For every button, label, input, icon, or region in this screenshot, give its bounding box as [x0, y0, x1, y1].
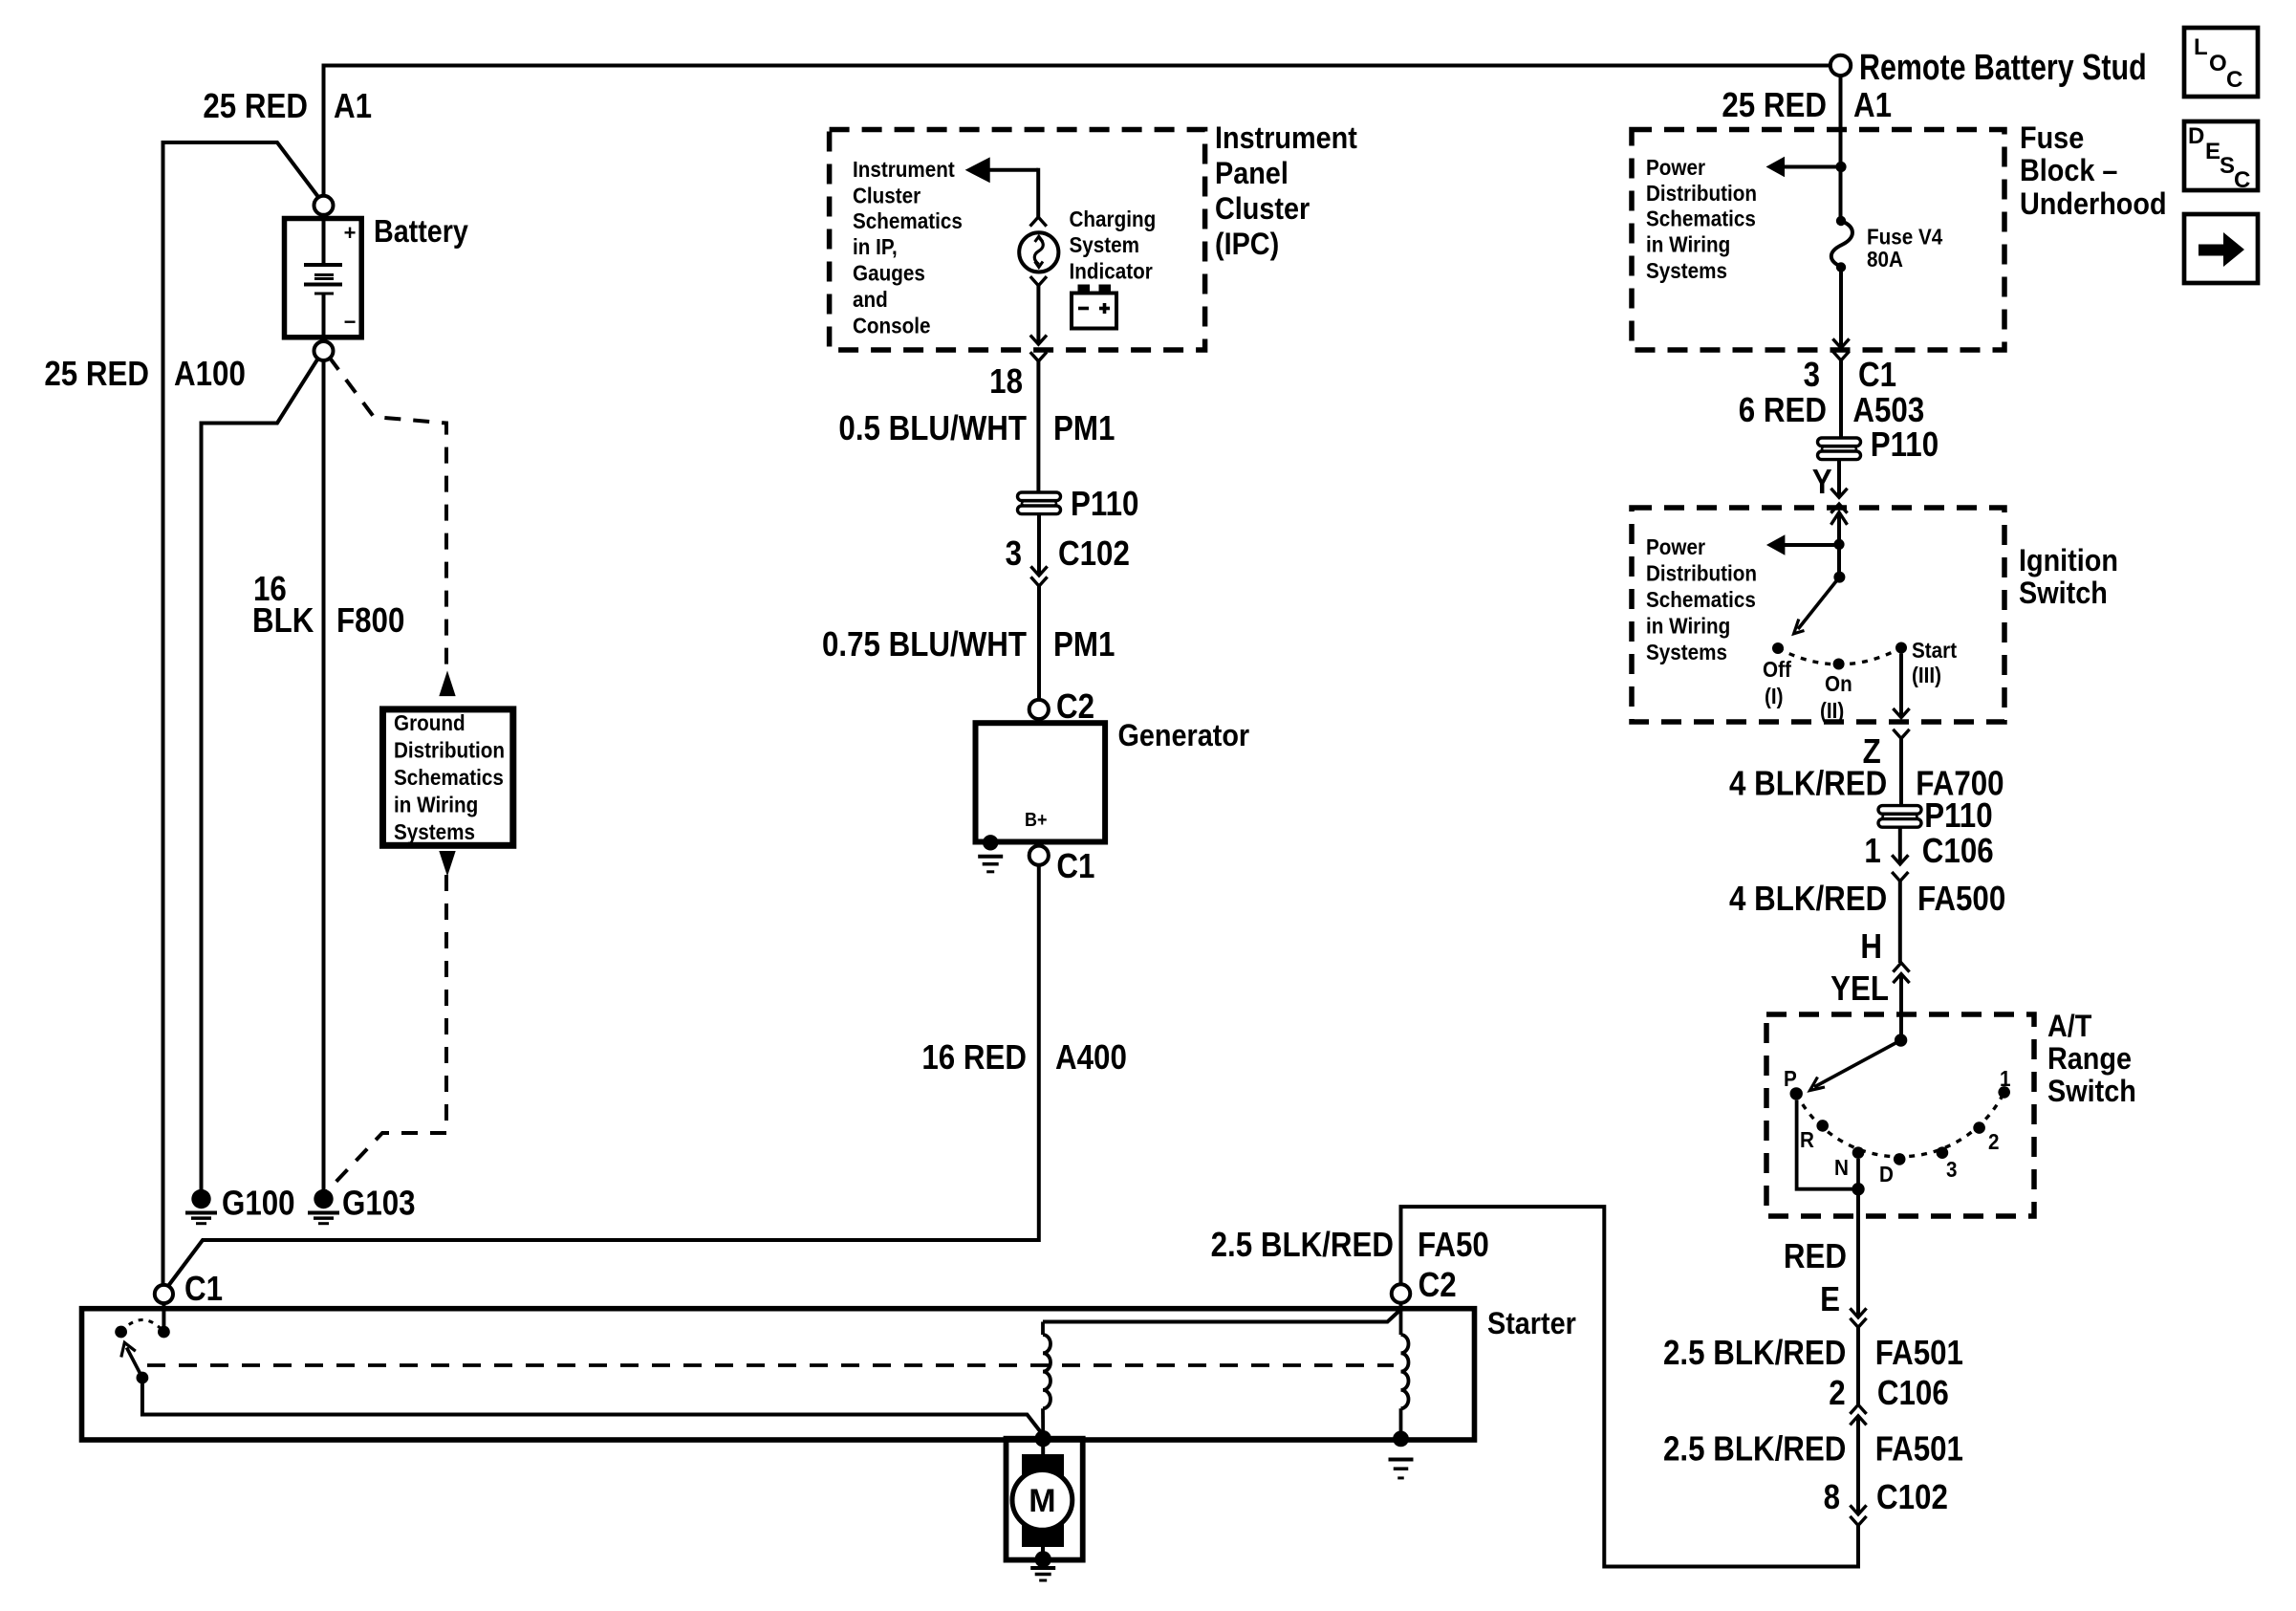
- starter switch arm: [127, 1348, 142, 1379]
- svg-text:R: R: [1800, 1127, 1814, 1153]
- wire battery negative to G100: [202, 359, 319, 1190]
- svg-text:A100: A100: [174, 355, 246, 394]
- svg-text:A400: A400: [1055, 1038, 1127, 1078]
- svg-text:Instrument: Instrument: [1215, 121, 1357, 156]
- chevron below ignition box: [1893, 729, 1909, 739]
- wire 4 BLK/RED FA500: [1898, 882, 1902, 963]
- svg-text:(I): (I): [1765, 684, 1784, 709]
- svg-text:Systems: Systems: [394, 819, 475, 845]
- starter hold-in coil L2: [1401, 1335, 1409, 1408]
- chevron below C102: [1030, 577, 1047, 586]
- svg-text:Block –: Block –: [2020, 154, 2117, 188]
- chevron below C102 pin8: [1850, 1516, 1866, 1526]
- DESC reference box: [2184, 121, 2258, 190]
- svg-text:2.5 BLK/RED: 2.5 BLK/RED: [1211, 1226, 1394, 1265]
- svg-text:A/T: A/T: [2047, 1010, 2092, 1044]
- connector P110 pass-through (IPC): [1018, 492, 1061, 514]
- svg-text:C1: C1: [1056, 847, 1094, 886]
- generator terminal C2 circle: [1029, 700, 1049, 719]
- chevron below C106 pin1: [1892, 872, 1908, 882]
- svg-text:4 BLK/RED: 4 BLK/RED: [1729, 764, 1887, 803]
- svg-text:in IP,: in IP,: [853, 234, 898, 260]
- svg-text:Switch: Switch: [2019, 577, 2108, 611]
- wire motor brush to ground: [1041, 1546, 1045, 1557]
- starter switch contact right: [158, 1326, 170, 1339]
- wire 2.5 BLK/RED FA501 upper: [1856, 1327, 1860, 1404]
- svg-text:25 RED: 25 RED: [1722, 86, 1827, 125]
- svg-text:in Wiring: in Wiring: [1646, 613, 1730, 639]
- AT contact R: [1816, 1120, 1829, 1132]
- wire 25 RED A100 left branch: [163, 142, 319, 1285]
- wire switch arm to motor junction: [142, 1378, 1043, 1435]
- svg-text:2.5 BLK/RED: 2.5 BLK/RED: [1663, 1334, 1846, 1373]
- svg-text:(IPC): (IPC): [1215, 228, 1279, 262]
- ground G100: [191, 1189, 210, 1208]
- AT contact 2: [1973, 1121, 1985, 1134]
- ignition contact Start: [1895, 642, 1907, 654]
- svg-text:A1: A1: [334, 87, 372, 126]
- svg-text:Battery: Battery: [374, 213, 469, 249]
- svg-text:16 RED: 16 RED: [921, 1038, 1027, 1078]
- svg-text:Schematics: Schematics: [1646, 206, 1756, 231]
- wire junction to motor brush: [1041, 1440, 1045, 1456]
- battery positive terminal circle: [314, 196, 334, 215]
- arrowhead at C102: [1030, 566, 1047, 576]
- ground G103: [314, 1189, 333, 1208]
- starter switch contact left: [115, 1326, 127, 1339]
- ground distribution schematics box: [383, 709, 513, 845]
- svg-text:Schematics: Schematics: [1646, 587, 1756, 613]
- svg-text:FA500: FA500: [1917, 880, 2005, 919]
- battery cell symbol: [322, 219, 326, 265]
- svg-text:Fuse: Fuse: [2020, 121, 2084, 156]
- AT output junction dot: [1852, 1183, 1864, 1195]
- svg-text:F800: F800: [336, 601, 404, 641]
- dashed detent arc ignition: [1778, 648, 1901, 664]
- svg-text:Range: Range: [2047, 1042, 2132, 1077]
- svg-text:Gauges: Gauges: [853, 260, 925, 286]
- arrowhead at C106 pin1: [1892, 855, 1908, 864]
- arrowhead down out of ground distribution box: [440, 852, 455, 876]
- AT switch pivot dot: [1895, 1034, 1907, 1046]
- motor case ground: [1030, 1566, 1055, 1570]
- svg-text:Systems: Systems: [1646, 640, 1727, 665]
- wire stud to fuse: [1839, 76, 1843, 221]
- arrow to instrument cluster schematics: [987, 168, 1038, 172]
- arrowhead up into ground distribution box: [440, 672, 455, 696]
- arrowhead at splice E: [1850, 1308, 1866, 1317]
- motor top brush: [1022, 1454, 1064, 1478]
- svg-text:2: 2: [1988, 1129, 2000, 1155]
- remote battery stud circle: [1830, 55, 1851, 76]
- generator terminal C1 circle: [1029, 846, 1049, 865]
- svg-text:PM1: PM1: [1053, 625, 1115, 664]
- svg-text:Remote Battery Stud: Remote Battery Stud: [1859, 48, 2147, 88]
- svg-text:Cluster: Cluster: [1215, 192, 1310, 227]
- svg-text:3: 3: [1006, 534, 1022, 574]
- svg-text:Instrument: Instrument: [853, 157, 955, 183]
- svg-text:P110: P110: [1071, 485, 1138, 524]
- AT contact N: [1852, 1146, 1865, 1159]
- svg-text:Schematics: Schematics: [394, 765, 504, 791]
- AT contact 1: [1998, 1086, 2010, 1099]
- wire starter C2 to hold-in coil: [1399, 1303, 1403, 1335]
- wire battery positive to top bus A1: [324, 66, 1831, 196]
- svg-text:Switch: Switch: [2047, 1075, 2136, 1109]
- svg-text:Schematics: Schematics: [853, 208, 963, 234]
- svg-text:C1: C1: [184, 1270, 223, 1309]
- svg-text:1: 1: [1864, 832, 1880, 871]
- svg-text:Y: Y: [1812, 463, 1832, 502]
- battery warning icon: [1072, 294, 1116, 329]
- AT contact D: [1894, 1153, 1906, 1165]
- svg-text:Console: Console: [853, 313, 931, 338]
- svg-text:Panel: Panel: [1215, 157, 1289, 191]
- svg-text:18: 18: [989, 362, 1023, 402]
- starter motor M1 circle: [1012, 1470, 1072, 1531]
- svg-text:P110: P110: [1871, 425, 1939, 465]
- connector P110 pass-through (A503): [1818, 438, 1861, 460]
- fuse block underhood dashed box: [1632, 130, 2004, 351]
- wire to C106: [1898, 827, 1902, 864]
- ignition switch arm: [1798, 577, 1839, 629]
- svg-text:6 RED: 6 RED: [1739, 391, 1827, 430]
- LOC reference box: [2184, 28, 2258, 97]
- charging system indicator lamp U1: [1019, 232, 1058, 272]
- battery negative terminal circle: [314, 341, 334, 360]
- wire IPC indicator feed: [1036, 168, 1040, 217]
- junction dot ignition feed: [1833, 539, 1844, 550]
- starter switch pivot dot: [137, 1372, 149, 1384]
- starter motor box: [1007, 1439, 1083, 1560]
- svg-text:PM1: PM1: [1053, 409, 1115, 448]
- wire to C102: [1037, 514, 1041, 576]
- starter terminal C1 circle: [155, 1285, 173, 1303]
- svg-text:C102: C102: [1058, 534, 1130, 574]
- svg-text:C: C: [2234, 167, 2250, 193]
- svg-text:8: 8: [1824, 1478, 1840, 1517]
- svg-text:25 RED: 25 RED: [44, 355, 149, 394]
- wire start contact to box exit: [1899, 654, 1903, 718]
- arrowhead entering ignition box: [1831, 512, 1848, 525]
- ignition contact On: [1833, 659, 1845, 670]
- svg-text:D: D: [2188, 123, 2204, 149]
- starter motor junction dot: [1035, 1430, 1051, 1447]
- svg-text:FA501: FA501: [1875, 1334, 1963, 1373]
- wire RED E out of AT switch: [1856, 1189, 1860, 1317]
- generator box: [976, 723, 1106, 841]
- dashed arc starter switch: [121, 1320, 164, 1333]
- wire YEL: [1899, 974, 1903, 1041]
- svg-text:Distribution: Distribution: [1646, 181, 1757, 207]
- dashed mechanical link starter: [147, 1363, 1394, 1367]
- motor ground dot: [1035, 1551, 1051, 1567]
- generator case ground: [983, 835, 998, 850]
- svg-text:E: E: [2205, 139, 2220, 164]
- svg-text:YEL: YEL: [1830, 969, 1889, 1009]
- svg-text:Cluster: Cluster: [853, 183, 921, 208]
- svg-text:Charging: Charging: [1070, 207, 1157, 232]
- chevron above indicator: [1030, 217, 1047, 227]
- motor bottom brush: [1022, 1523, 1064, 1548]
- chevron below IPC box: [1030, 352, 1047, 361]
- wire 0.75 BLU/WHT PM1: [1037, 586, 1041, 700]
- wire to C1 connector: [1839, 360, 1843, 438]
- wire 0.5 BLU/WHT PM1: [1036, 361, 1040, 492]
- svg-text:P110: P110: [1924, 796, 1992, 836]
- svg-text:(III): (III): [1912, 663, 1941, 688]
- svg-text:FA501: FA501: [1875, 1429, 1963, 1469]
- wire Z 4 BLK/RED FA700: [1899, 738, 1903, 807]
- splice H chevron pair: [1893, 963, 1909, 972]
- svg-text:Indicator: Indicator: [1070, 258, 1154, 284]
- arrowhead at C102 pin8: [1850, 1505, 1866, 1514]
- svg-text:A1: A1: [1853, 86, 1892, 125]
- svg-text:Distribution: Distribution: [394, 737, 505, 763]
- svg-text:25 RED: 25 RED: [203, 87, 308, 126]
- svg-text:Systems: Systems: [1646, 258, 1727, 284]
- arrow exiting fuse box: [1832, 338, 1849, 348]
- svg-text:Distribution: Distribution: [1646, 560, 1757, 586]
- svg-text:Power: Power: [1646, 155, 1705, 181]
- svg-text:C102: C102: [1876, 1478, 1948, 1517]
- instrument panel cluster dashed box: [830, 130, 1205, 351]
- svg-text:System: System: [1070, 232, 1140, 258]
- svg-text:3: 3: [1804, 356, 1820, 395]
- starter solenoid box: [82, 1309, 1475, 1440]
- starter ground junction dot: [1393, 1431, 1409, 1448]
- svg-text:G100: G100: [222, 1184, 295, 1223]
- svg-text:B+: B+: [1025, 810, 1048, 831]
- wire fuse to box exit: [1839, 268, 1843, 349]
- svg-text:N: N: [1834, 1155, 1849, 1181]
- wire to ignition switch: [1837, 460, 1841, 497]
- dashed wire ground box to G103: [326, 875, 446, 1192]
- dashed ground reference wire from battery: [329, 357, 446, 672]
- svg-text:80A: 80A: [1867, 247, 1903, 272]
- arrow exiting IPC box bottom: [1030, 336, 1047, 345]
- svg-text:0.5 BLU/WHT: 0.5 BLU/WHT: [838, 409, 1027, 448]
- arrow exiting ignition box: [1893, 708, 1909, 718]
- wire P contact to output junction: [1797, 1100, 1852, 1189]
- arrow to power distribution schematics (ignition): [1784, 543, 1834, 547]
- svg-text:E: E: [1820, 1280, 1840, 1319]
- svg-text:2: 2: [1829, 1374, 1845, 1413]
- wire C1 into starter switch: [162, 1303, 165, 1326]
- AT contact P: [1790, 1087, 1803, 1099]
- svg-text:4 BLK/RED: 4 BLK/RED: [1729, 880, 1887, 919]
- svg-text:C106: C106: [1922, 832, 1994, 871]
- next-page arrow box: [2184, 214, 2258, 283]
- svg-text:RED: RED: [1784, 1237, 1847, 1276]
- dashed detent arc AT switch: [1796, 1092, 2004, 1156]
- connector P110 pass-through (FA700): [1878, 806, 1921, 828]
- svg-text:P: P: [1784, 1066, 1797, 1092]
- svg-text:O: O: [2209, 51, 2227, 76]
- svg-text:BLK: BLK: [252, 601, 314, 641]
- svg-text:in Wiring: in Wiring: [394, 792, 478, 817]
- svg-text:and: and: [853, 287, 888, 313]
- svg-text:On: On: [1825, 671, 1852, 697]
- wire pull-in coil top: [1043, 1310, 1401, 1322]
- starter pull-in coil L1: [1041, 1322, 1045, 1336]
- wire 16 RED A400: [165, 865, 1039, 1290]
- svg-text:Power: Power: [1646, 534, 1705, 560]
- svg-text:FA50: FA50: [1418, 1226, 1489, 1265]
- AT range switch dashed box: [1766, 1014, 2034, 1216]
- svg-text:1: 1: [2000, 1066, 2011, 1092]
- svg-text:H: H: [1860, 927, 1882, 967]
- starter C2 terminal circle: [1392, 1284, 1411, 1303]
- ignition switch pivot dot: [1833, 572, 1845, 583]
- battery B1 box: [285, 219, 362, 337]
- svg-text:A503: A503: [1852, 391, 1924, 430]
- chevron below fuse box: [1832, 351, 1849, 360]
- wire to ignition pivot: [1837, 544, 1841, 577]
- svg-text:Start: Start: [1912, 638, 1958, 664]
- svg-text:2.5 BLK/RED: 2.5 BLK/RED: [1663, 1429, 1846, 1469]
- ignition switch dashed box: [1632, 508, 2004, 722]
- svg-text:Generator: Generator: [1118, 719, 1250, 753]
- svg-text:S: S: [2220, 153, 2235, 179]
- svg-text:+: +: [344, 221, 357, 245]
- svg-text:Starter: Starter: [1487, 1307, 1576, 1341]
- ignition contact Off: [1772, 642, 1784, 654]
- arrowhead above ignition box: [1830, 489, 1847, 498]
- wire 2.5 BLK/RED FA501 lower: [1856, 1416, 1860, 1514]
- svg-text:C1: C1: [1858, 356, 1896, 395]
- svg-text:C2: C2: [1419, 1266, 1457, 1305]
- svg-text:Ground: Ground: [394, 710, 466, 736]
- svg-text:G103: G103: [342, 1184, 416, 1223]
- fuse V4 80A: [1836, 216, 1846, 226]
- svg-text:Underhood: Underhood: [2020, 187, 2167, 222]
- svg-text:L: L: [2194, 34, 2208, 60]
- starter case ground: [1389, 1458, 1414, 1462]
- svg-text:C: C: [2226, 67, 2242, 93]
- chevron below splice E: [1850, 1318, 1866, 1328]
- svg-text:in Wiring: in Wiring: [1646, 231, 1730, 257]
- svg-text:Ignition: Ignition: [2019, 544, 2118, 578]
- junction dot fuse box feed: [1835, 162, 1846, 172]
- AT switch arm: [1814, 1040, 1901, 1087]
- svg-text:3: 3: [1946, 1157, 1958, 1183]
- svg-text:(II): (II): [1820, 698, 1844, 724]
- wire battery negative to G103: [322, 360, 326, 1190]
- svg-text:D: D: [1879, 1162, 1894, 1187]
- connector C106 pin2 chevron pair: [1850, 1404, 1866, 1414]
- wire loop to starter C2: [1401, 1207, 1859, 1566]
- wire N contact to output junction: [1856, 1159, 1860, 1189]
- svg-text:0.75 BLU/WHT: 0.75 BLU/WHT: [822, 625, 1027, 664]
- AT contact 3: [1937, 1146, 1949, 1159]
- svg-text:−: −: [344, 310, 357, 334]
- svg-text:C106: C106: [1877, 1374, 1949, 1413]
- arrow to power distribution schematics (fuse box): [1784, 165, 1836, 169]
- chevron below indicator: [1030, 276, 1047, 286]
- svg-text:Off: Off: [1763, 657, 1791, 683]
- svg-text:M: M: [1029, 1483, 1055, 1519]
